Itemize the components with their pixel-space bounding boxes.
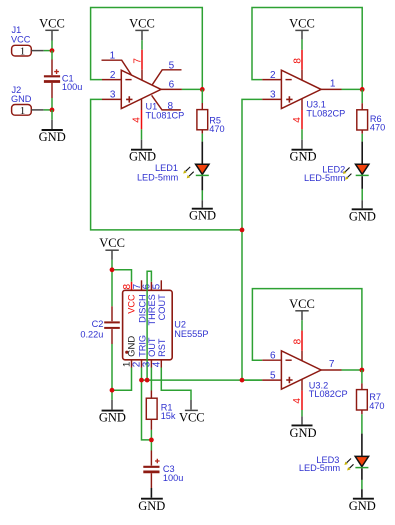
pin name OUT (U2) — [147, 337, 157, 357]
svg-text:VCC: VCC — [179, 411, 205, 425]
op-amp U3.2 — [281, 351, 321, 389]
svg-text:5: 5 — [152, 283, 163, 289]
wire U1 output to junction — [182, 88, 202, 90]
pin U1.8 stub — [152, 95, 181, 110]
wire U3.1 feedback loop (output to pin 2) — [252, 8, 362, 90]
pin U1.3 lead — [102, 98, 121, 100]
wire U1 pin3 net down-left rail — [91, 99, 242, 230]
svg-text:GND: GND — [126, 336, 137, 357]
pin U3B.4 V- lead — [301, 379, 303, 410]
pin number 7 (U3.2) — [329, 359, 335, 370]
wire junction to R6 — [361, 89, 363, 103]
junction TRIG node — [139, 378, 144, 383]
power VCC symbol above U3.1 — [289, 17, 315, 40]
wire R7 to LED3 — [361, 414, 363, 433]
pin number 4 (U3.1) — [292, 117, 303, 123]
svg-text:LED-5mm: LED-5mm — [299, 463, 341, 473]
pin number 8 (U2) — [122, 284, 133, 290]
svg-text:6: 6 — [270, 351, 276, 362]
ground symbol under C3 — [138, 488, 165, 513]
svg-text:470: 470 — [370, 123, 385, 133]
wire VCC to U3.2 pin 8 — [301, 320, 303, 330]
svg-text:470: 470 — [209, 124, 224, 134]
pin number 1 (U2) — [122, 362, 133, 367]
pin U3A.4 V- lead — [301, 99, 303, 130]
pin U3B.8 V+ lead — [301, 331, 303, 361]
svg-text:7: 7 — [132, 58, 143, 64]
junction at U1 output — [200, 87, 205, 92]
pin number 8 (U3.1) — [292, 58, 303, 64]
junction at J2/GND node — [50, 108, 55, 113]
pin U3A.1 output lead — [321, 88, 341, 90]
pin number 7 (U1) — [132, 58, 143, 64]
pin number 5 (U1) — [169, 60, 175, 71]
resistor R5 470 — [197, 103, 225, 134]
pin number 1 (U1) — [110, 50, 116, 61]
wire U1 pin4 to ground — [141, 129, 143, 139]
label U3.2 — [309, 381, 328, 391]
junction at mid vertical (pin3 rail) — [240, 228, 245, 233]
wire U1 feedback loop (output to pin 2) — [91, 8, 203, 90]
wire RST to VCC symbol — [161, 368, 191, 401]
wire R5 to LED1 — [201, 134, 203, 142]
power VCC symbol at RST — [179, 400, 205, 425]
LED2 — [356, 142, 369, 189]
pin number 6 (U3.2) — [270, 351, 276, 362]
pin number 4 (U3.2) — [292, 398, 303, 404]
wire VCC node down to C1 — [51, 51, 53, 60]
pin number 5 (U2) — [152, 283, 163, 289]
resistor R1 15k — [146, 391, 176, 430]
junction at 555 VCC node — [110, 267, 115, 272]
pin name RST (U2) — [157, 338, 167, 357]
pin number 4 (U2) — [152, 361, 163, 367]
pin number 5 (U3.2) — [270, 370, 276, 381]
pin name TRIG (U2) — [137, 335, 147, 357]
pin J1.1 lead — [31, 50, 43, 52]
ground symbol under LED3 — [349, 489, 376, 513]
svg-text:GND: GND — [189, 209, 216, 223]
LED1 emission arrows — [183, 167, 194, 179]
svg-text:C2: C2 — [92, 319, 104, 329]
pin U2.4 RST lead — [160, 360, 162, 368]
svg-text:GND: GND — [129, 150, 156, 164]
svg-text:COUT: COUT — [157, 294, 167, 320]
wire trigger rail to U3.2 pin 5 — [142, 379, 263, 381]
ground symbol under C2 — [99, 400, 126, 424]
label U1 — [146, 101, 158, 111]
power VCC symbol above U2 — [99, 236, 125, 260]
svg-text:VCC: VCC — [126, 294, 136, 314]
svg-text:5: 5 — [270, 370, 276, 381]
pin U2.2 TRIG lead — [141, 360, 143, 368]
value LED-5mm (LED2) — [304, 173, 346, 183]
svg-text:LED-5mm: LED-5mm — [304, 173, 346, 183]
ground symbol under U3.2 — [289, 416, 316, 440]
pin U3B.7 output lead — [321, 369, 341, 371]
svg-text:VCC: VCC — [289, 17, 315, 31]
junction at U3.2 output — [360, 368, 365, 373]
wire GND node to ground symbol — [51, 110, 53, 120]
pin number 2 (U2) — [132, 361, 143, 367]
svg-text:TL081CP: TL081CP — [146, 111, 185, 121]
pin number 3 (U2) — [142, 361, 153, 367]
pin J2.1 lead — [31, 109, 43, 111]
junction at C2/GND node — [110, 388, 115, 393]
pin number 4 (U1) — [132, 117, 143, 123]
op-amp U3.1 — [281, 70, 321, 108]
wire VCC node down to C2 — [111, 270, 113, 307]
pin number 2 (U3.1) — [270, 70, 276, 81]
pin U2.3 OUT lead — [150, 360, 152, 368]
pin U2.5 COUT stub — [160, 280, 162, 290]
wire U3.1 pin4 to ground — [301, 129, 303, 139]
svg-text:GND: GND — [289, 150, 316, 164]
svg-text:GND: GND — [39, 130, 66, 144]
label U3.1 — [306, 100, 325, 110]
svg-text:470: 470 — [369, 401, 384, 411]
svg-text:3: 3 — [110, 90, 116, 101]
label U2 — [174, 320, 186, 330]
pin U2.8 VCC lead — [131, 282, 133, 291]
wire THRES loop over box down to trigger rail — [147, 271, 151, 380]
LED2 emission arrows — [343, 168, 351, 180]
timer U2 NE555P body — [123, 290, 173, 360]
value LED-5mm (LED1) — [137, 173, 179, 183]
wire LED1 to ground — [201, 190, 203, 200]
pin U1.5 stub — [152, 70, 181, 85]
svg-text:GND: GND — [11, 94, 32, 104]
pin U1.2 lead — [102, 79, 121, 81]
pin U2.7 DISCH stub — [141, 280, 143, 290]
capacitor C2 0.22u — [80, 306, 119, 344]
value LED-5mm (LED3) — [299, 463, 341, 473]
svg-text:LED1: LED1 — [155, 163, 178, 173]
svg-text:NE555P: NE555P — [174, 329, 208, 339]
svg-text:RST: RST — [157, 338, 167, 357]
pin name COUT (U2) — [157, 294, 167, 320]
wire U3.2 pin4 to ground — [301, 410, 303, 416]
svg-text:2: 2 — [270, 70, 276, 81]
svg-text:1: 1 — [330, 79, 336, 90]
svg-text:3: 3 — [270, 90, 276, 101]
svg-text:1: 1 — [110, 50, 116, 61]
svg-text:1: 1 — [20, 46, 26, 58]
wire U3.2 output to junction — [342, 369, 362, 371]
pin number 2 (U1) — [110, 70, 116, 81]
power VCC symbol (left) — [39, 16, 65, 40]
svg-text:4: 4 — [152, 361, 163, 367]
label LED1 — [155, 163, 178, 173]
svg-text:8: 8 — [292, 58, 303, 64]
svg-text:4: 4 — [132, 117, 143, 123]
pin number 7 (U2) — [132, 283, 143, 289]
svg-text:TL082CP: TL082CP — [309, 389, 348, 399]
LED3 — [355, 434, 368, 480]
capacitor C3 100u — [143, 451, 183, 489]
ground symbol under LED1 — [189, 200, 216, 223]
junction THRES node — [145, 378, 150, 383]
wire U3.1 output to junction — [342, 88, 363, 90]
wire C2 to GND node — [111, 344, 113, 390]
svg-text:VCC: VCC — [99, 236, 125, 250]
svg-text:8: 8 — [292, 338, 303, 344]
pin number 3 (U1) — [110, 90, 116, 101]
svg-text:VCC: VCC — [11, 34, 31, 44]
svg-text:4: 4 — [292, 117, 303, 123]
pin number 1 (U3.1) — [330, 79, 336, 90]
wire VCC to U1 pin 7 — [141, 40, 143, 50]
svg-text:GND: GND — [289, 426, 316, 440]
wire R1 to cap node — [150, 430, 152, 440]
pin number 6 (U2) — [142, 283, 153, 289]
wire GND node to ground symbol — [111, 390, 113, 400]
wire TRIG to rail — [141, 368, 143, 381]
junction at J1/VCC node — [50, 48, 55, 53]
wire J2 to GND net — [44, 109, 52, 111]
pin name DISCH (U2) — [137, 294, 147, 323]
svg-text:GND: GND — [349, 209, 376, 223]
pin U3A.3 lead — [262, 98, 281, 100]
label LED2 — [322, 164, 345, 174]
pin name THRES (U2) — [147, 294, 157, 325]
connector J2 — [11, 85, 32, 117]
wire C1 to GND node — [51, 98, 53, 110]
wire VCC symbol to VCC node — [111, 260, 113, 270]
svg-text:TL082CP: TL082CP — [306, 109, 345, 119]
pin U3B.5 lead — [262, 379, 281, 381]
capacitor C1 100u — [44, 60, 82, 99]
pin U3A.2 lead — [262, 79, 281, 81]
wire LED3 to ground — [361, 480, 363, 489]
wire LED2 to ground — [361, 189, 363, 200]
svg-text:2: 2 — [110, 70, 116, 81]
resistor R6 470 — [357, 103, 385, 134]
wire VCC symbol to junction — [51, 41, 53, 51]
pin number 8 (U1) — [167, 101, 173, 112]
connector J1 — [11, 25, 31, 57]
svg-text:DISCH: DISCH — [137, 294, 147, 323]
pin U1.4 V- lead — [141, 99, 143, 129]
svg-text:THRES: THRES — [147, 294, 157, 325]
wire junction to R7 — [361, 370, 363, 383]
wire U3.2 feedback loop (output to pin 6) — [252, 289, 362, 370]
pin number 6 (U1) — [169, 80, 175, 91]
svg-text:15k: 15k — [161, 411, 176, 421]
svg-text:TRIG: TRIG — [137, 335, 147, 357]
ground symbol under U1 — [129, 140, 156, 164]
op-amp U1 — [121, 70, 161, 108]
svg-text:100u: 100u — [163, 473, 183, 483]
pin U2.6 THRES lead — [150, 282, 152, 291]
resistor R7 470 — [357, 383, 385, 414]
svg-text:GND: GND — [349, 499, 376, 513]
wire R6 to LED2 — [361, 134, 363, 142]
junction rail/mid vertical — [240, 378, 245, 383]
svg-text:6: 6 — [169, 80, 175, 91]
pin number 3 (U3.1) — [270, 90, 276, 101]
ground symbol (left column) — [39, 120, 66, 144]
wire trigger node down to cap node — [142, 380, 152, 440]
wire rail junction to U3.2 pin 5 — [242, 379, 262, 381]
wire junction to R5 — [201, 89, 203, 103]
svg-text:5: 5 — [169, 60, 175, 71]
LED1 — [196, 142, 209, 191]
LED3 emission arrows — [344, 459, 353, 471]
pin name VCC (U2) — [126, 294, 136, 314]
svg-text:4: 4 — [292, 398, 303, 404]
wire J1 to VCC net — [44, 50, 52, 52]
value TL082CP (U3.2) — [309, 389, 348, 399]
pin name GND (U2) — [126, 336, 137, 357]
pin U1.6 output lead — [161, 88, 182, 90]
svg-text:1: 1 — [20, 105, 26, 117]
wire cap node to C3 — [150, 440, 152, 451]
value TL082CP (U3.1) — [306, 109, 345, 119]
value TL081CP — [146, 111, 185, 121]
junction at R1/C3 node — [149, 438, 154, 443]
pin U3A.8 V+ lead — [301, 50, 303, 80]
svg-text:VCC: VCC — [129, 17, 155, 31]
svg-text:OUT: OUT — [147, 337, 157, 357]
value NE555P — [174, 329, 208, 339]
wire VCC node to U2 pin 8 — [112, 270, 132, 282]
pin U1.7 V+ lead — [141, 50, 143, 81]
ground symbol under U3.1 — [289, 140, 316, 164]
pin number 8 (U3.2) — [292, 338, 303, 344]
svg-text:GND: GND — [99, 410, 126, 424]
pin U2.1 GND lead — [131, 360, 133, 368]
wire OUT down to R1 — [150, 368, 152, 391]
junction at U3.1 output — [360, 87, 365, 92]
svg-text:100u: 100u — [62, 82, 82, 92]
svg-text:LED-5mm: LED-5mm — [137, 173, 179, 183]
svg-text:7: 7 — [329, 359, 335, 370]
svg-text:VCC: VCC — [289, 297, 315, 311]
label LED3 — [316, 455, 339, 465]
svg-text:0.22u: 0.22u — [80, 329, 103, 339]
svg-text:GND: GND — [138, 499, 165, 513]
svg-text:VCC: VCC — [39, 16, 65, 30]
power VCC symbol above U1 — [129, 17, 155, 41]
ground symbol under LED2 — [349, 200, 376, 223]
pin U3B.6 lead — [262, 359, 281, 361]
power VCC symbol above U3.2 — [289, 297, 315, 320]
wire pin3 vertical net — [242, 99, 262, 380]
wire U2 pin1 to GND node — [112, 368, 132, 391]
pin U1.1 stub — [102, 60, 132, 75]
wire VCC to U3.1 pin 8 — [301, 39, 303, 50]
